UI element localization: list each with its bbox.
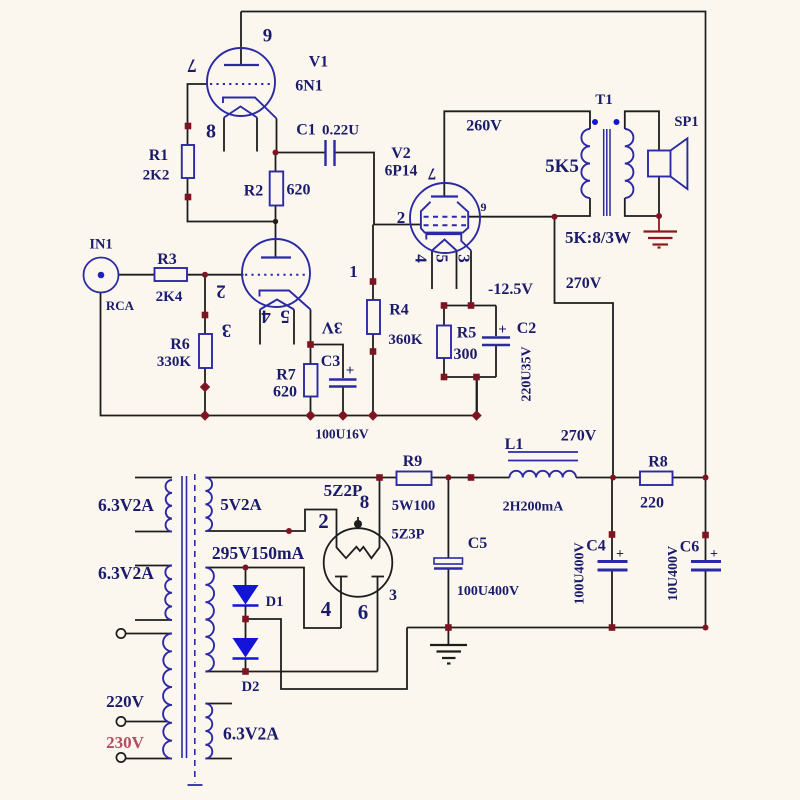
svg-text:220U35V: 220U35V (520, 346, 535, 401)
svg-text:C4: C4 (586, 538, 606, 555)
svg-text:0.22U: 0.22U (322, 123, 359, 139)
svg-text:T1: T1 (595, 92, 613, 108)
svg-text:5K5: 5K5 (545, 156, 579, 177)
svg-text:4: 4 (261, 306, 271, 327)
svg-text:V1: V1 (309, 54, 329, 71)
svg-text:100U400V: 100U400V (457, 584, 519, 599)
svg-text:2: 2 (216, 281, 226, 302)
svg-text:R8: R8 (648, 454, 668, 471)
svg-text:IN1: IN1 (89, 237, 112, 253)
svg-text:-12.5V: -12.5V (488, 281, 533, 298)
svg-text:L1: L1 (505, 436, 524, 453)
svg-text:8: 8 (360, 492, 370, 513)
svg-text:220: 220 (640, 495, 664, 512)
svg-text:C1: C1 (296, 122, 316, 139)
svg-text:C5: C5 (468, 535, 488, 552)
svg-text:5: 5 (280, 306, 290, 327)
svg-text:6: 6 (358, 600, 369, 624)
svg-text:220V: 220V (106, 692, 145, 711)
svg-text:7: 7 (187, 55, 197, 76)
svg-text:+: + (710, 547, 718, 562)
svg-text:+: + (498, 322, 507, 338)
svg-text:360K: 360K (388, 332, 423, 348)
svg-text:R3: R3 (157, 251, 177, 268)
svg-text:+: + (346, 363, 355, 379)
svg-text:5Z3P: 5Z3P (391, 527, 424, 543)
svg-text:7: 7 (427, 165, 436, 184)
svg-text:2K2: 2K2 (143, 168, 170, 184)
svg-text:4: 4 (321, 597, 332, 621)
svg-text:6.3V2A: 6.3V2A (223, 724, 279, 744)
svg-text:5W100: 5W100 (392, 498, 436, 514)
svg-text:V2: V2 (391, 145, 411, 162)
svg-text:D1: D1 (266, 594, 284, 610)
svg-text:RCA: RCA (106, 298, 135, 313)
svg-text:C2: C2 (517, 320, 537, 337)
svg-text:3: 3 (222, 320, 232, 341)
svg-text:3: 3 (455, 254, 474, 263)
svg-text:+: + (616, 547, 624, 562)
svg-text:D2: D2 (242, 679, 260, 695)
svg-text:R2: R2 (244, 183, 264, 200)
svg-text:8: 8 (206, 121, 216, 143)
svg-text:5K:8/3W: 5K:8/3W (565, 228, 631, 247)
svg-text:270V: 270V (561, 428, 597, 445)
svg-text:6.3V2A: 6.3V2A (98, 495, 154, 515)
svg-text:5V2A: 5V2A (220, 495, 262, 514)
svg-text:R6: R6 (170, 336, 190, 353)
svg-text:270V: 270V (566, 275, 602, 292)
svg-text:9: 9 (481, 200, 487, 214)
svg-text:5: 5 (433, 254, 452, 263)
svg-text:620: 620 (273, 384, 297, 401)
svg-text:R4: R4 (389, 302, 409, 319)
svg-text:9: 9 (263, 26, 273, 47)
svg-text:260V: 260V (466, 118, 502, 135)
svg-text:R5: R5 (457, 325, 477, 342)
svg-text:10U400V: 10U400V (666, 546, 681, 601)
svg-text:300: 300 (454, 346, 478, 363)
svg-text:R1: R1 (149, 147, 169, 164)
svg-text:2K4: 2K4 (156, 289, 183, 305)
svg-text:2H200mA: 2H200mA (503, 500, 565, 515)
svg-text:C3: C3 (321, 353, 341, 370)
svg-text:5Z2P: 5Z2P (324, 481, 363, 500)
svg-text:230V: 230V (106, 733, 145, 752)
svg-text:100U16V: 100U16V (315, 427, 368, 442)
svg-text:R7: R7 (276, 367, 296, 384)
svg-text:6P14: 6P14 (385, 163, 418, 180)
svg-text:2: 2 (318, 509, 329, 533)
svg-text:1: 1 (349, 262, 358, 281)
svg-text:100U400V: 100U400V (573, 542, 588, 604)
svg-text:C6: C6 (680, 539, 700, 556)
svg-text:620: 620 (287, 182, 311, 199)
svg-text:295V150mA: 295V150mA (212, 543, 305, 563)
svg-text:3: 3 (389, 587, 397, 604)
svg-text:6.3V2A: 6.3V2A (98, 563, 154, 583)
svg-text:330K: 330K (157, 354, 192, 370)
svg-text:4: 4 (412, 254, 431, 263)
svg-text:SP1: SP1 (674, 114, 698, 130)
svg-text:6N1: 6N1 (295, 78, 323, 95)
svg-text:3V: 3V (321, 319, 343, 338)
svg-text:R9: R9 (403, 453, 423, 470)
svg-text:2: 2 (397, 208, 406, 227)
